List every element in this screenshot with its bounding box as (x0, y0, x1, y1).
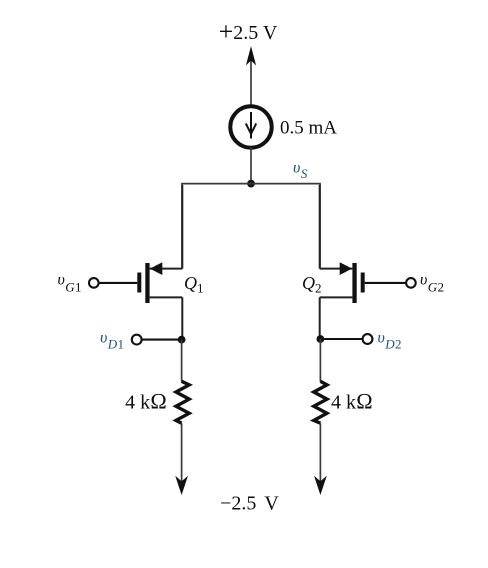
current source I 0.5mA (230, 106, 271, 147)
terminal vD2 (320, 334, 372, 344)
svg-text:υS: υS (293, 160, 308, 182)
arrow to -2.5V right (314, 476, 327, 495)
svg-text:υG1: υG1 (58, 272, 82, 295)
arrow to -2.5V left (175, 476, 188, 495)
wire supply vertical (250, 58, 252, 106)
transistor Q1 (137, 185, 182, 340)
svg-text:Q1: Q1 (184, 273, 204, 296)
node D2 junction dot (317, 335, 325, 343)
wire R2 to -2.5V (319, 423, 321, 483)
svg-text:Q2: Q2 (302, 273, 322, 296)
svg-text:υG2: υG2 (420, 272, 444, 295)
wire right rail to Q2 source (319, 184, 321, 269)
svg-text:+2.5 V: +2.5 V (219, 17, 278, 46)
power arrow up (246, 46, 256, 66)
wire Q2 drain to R2 (319, 339, 321, 382)
wire vS rail (181, 183, 321, 185)
wire left rail to Q1 source (181, 184, 183, 269)
svg-text:4 kΩ: 4 kΩ (331, 389, 373, 414)
svg-text:4 kΩ: 4 kΩ (125, 389, 167, 414)
terminal vG1 (89, 278, 137, 288)
node vS junction dot (247, 180, 255, 188)
svg-text:υD1: υD1 (100, 330, 124, 352)
terminal vG2 (365, 278, 416, 288)
wire source to rail (250, 148, 252, 184)
node D1 junction dot (178, 336, 186, 344)
transistor Q2 (320, 185, 365, 340)
resistor R1 4k (176, 381, 189, 423)
terminal vD1 (132, 335, 181, 345)
wire Q1 drain to R1 (181, 340, 183, 382)
svg-text:−2.5V: −2.5V (220, 493, 279, 515)
svg-text:0.5 mA: 0.5 mA (280, 118, 337, 139)
wire R1 to -2.5V (181, 423, 183, 483)
svg-text:υD2: υD2 (378, 330, 402, 352)
resistor R2 4k (314, 381, 327, 423)
